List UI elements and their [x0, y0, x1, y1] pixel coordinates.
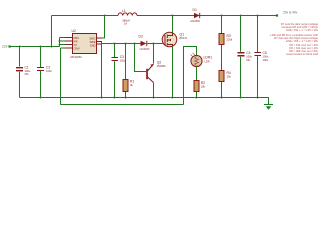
svg-text:C4: C4 [246, 51, 250, 55]
transistor Q1 BS170 [162, 32, 177, 47]
ground [264, 104, 273, 106]
wire top rail right [137, 15, 277, 17]
svg-text:SWC: SWC [89, 36, 95, 40]
svg-text:25v: 25v [25, 72, 30, 76]
svg-text:LDR1: LDR1 [204, 56, 213, 60]
resistor R2 [194, 81, 199, 92]
svg-text:D1: D1 [193, 8, 197, 12]
svg-text:R2: R2 [201, 81, 205, 85]
svg-text:15k: 15k [201, 85, 206, 89]
svg-text:Q2: Q2 [157, 60, 162, 64]
capacitor C1 [19, 47, 21, 98]
svg-text:C5: C5 [263, 51, 267, 55]
svg-text:R1: R1 [130, 80, 134, 84]
svg-text:CINV: CINV [74, 46, 80, 50]
diode D2 [141, 41, 147, 46]
svg-text:12v: 12v [2, 45, 8, 49]
wire input rail [10, 46, 60, 48]
resistor R3 [221, 16, 223, 34]
node drive junctions [114, 43, 116, 45]
svg-text:C3: C3 [120, 55, 124, 59]
wire vin to top rail [51, 16, 53, 47]
node ground rail junctions [40, 97, 42, 99]
svg-text:C1: C1 [25, 66, 29, 70]
wire IC supply tie vertical [59, 38, 61, 47]
op IC U2 MC34063 [73, 34, 97, 54]
svg-text:D2: D2 [139, 35, 143, 39]
wire LDR to R2 [196, 67, 198, 81]
resistor R4 [219, 71, 224, 82]
svg-text:GND: GND [90, 43, 96, 47]
svg-text:220k / 15k + 1 * 1.25 = 20v: 220k / 15k + 1 * 1.25 = 20v [286, 28, 319, 32]
svg-text:20v is 40v: 20v is 40v [283, 10, 298, 14]
svg-text:TC: TC [74, 43, 78, 47]
svg-text:BS170: BS170 [180, 37, 188, 40]
capacitor C4 [240, 16, 242, 98]
svg-text:mbr0520: mbr0520 [190, 20, 200, 23]
node output terminal [276, 14, 278, 16]
capacitor C2 [40, 47, 42, 98]
wire CINV feedback down [60, 48, 62, 105]
svg-text:3k: 3k [130, 83, 133, 87]
pin stubs left [60, 38, 66, 49]
svg-text:63v: 63v [246, 58, 251, 62]
inductor L1 [118, 13, 137, 16]
svg-text:DRC: DRC [74, 36, 80, 40]
wire SWC to top rail [102, 16, 105, 39]
wire ground rail [20, 98, 269, 105]
wire R3 to R4 [221, 45, 223, 71]
svg-text:15k: 15k [227, 75, 232, 79]
node junction L corner [51, 46, 53, 48]
resistor R1 [125, 44, 127, 98]
capacitor C5 [257, 16, 259, 98]
pin stubs right [97, 38, 102, 44]
svg-text:Q1: Q1 [180, 32, 185, 36]
svg-text:MC34063: MC34063 [71, 55, 83, 59]
svg-text:100v: 100v [263, 58, 269, 62]
svg-text:mbr0520: mbr0520 [140, 48, 150, 51]
node VIN terminal [9, 45, 11, 47]
svg-text:1A: 1A [124, 23, 127, 26]
svg-text:R3: R3 [227, 34, 231, 38]
svg-text:SWE: SWE [90, 40, 96, 44]
node junction C1 [19, 46, 21, 48]
svg-text:IPK: IPK [74, 39, 78, 43]
node junction C2 [40, 46, 42, 48]
transistor Q2 2N3906 [135, 44, 147, 72]
svg-text:L1: L1 [122, 9, 126, 13]
wire top rail left [52, 15, 119, 17]
wire IC gnd down [101, 42, 103, 98]
svg-text:220k / 7k5 + 1 * 1.25 = 38v: 220k / 7k5 + 1 * 1.25 = 38v [286, 39, 319, 43]
wire feedback up to LDR [184, 47, 197, 105]
svg-text:U2: U2 [72, 29, 76, 33]
wire gate drive line [102, 43, 163, 45]
node pin tie junctions [59, 40, 61, 42]
svg-text:2N3906: 2N3906 [157, 65, 166, 68]
capacitor C3 [114, 44, 116, 98]
svg-text:output tested at 20ma load: output tested at 20ma load [286, 52, 318, 56]
svg-text:220k: 220k [227, 38, 233, 42]
svg-text:C2: C2 [46, 66, 50, 70]
svg-text:R4: R4 [227, 71, 231, 75]
photoresistor LDR1 [191, 55, 202, 66]
wire feedback rail2 [61, 104, 184, 106]
diode D1 [194, 13, 200, 18]
svg-text:100n: 100n [46, 69, 52, 73]
svg-text:LDR: LDR [205, 60, 210, 63]
